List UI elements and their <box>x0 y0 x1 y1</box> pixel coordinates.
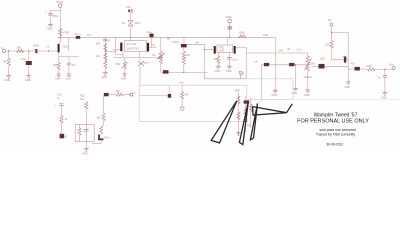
svg-text:fs: fs <box>134 92 137 95</box>
svg-text:led: led <box>247 124 251 127</box>
wire x295 to ground <box>294 65 296 87</box>
svg-text:GND: GND <box>345 86 351 89</box>
capacitor C8 to ground <box>228 53 230 58</box>
capacitor C15 <box>59 104 63 106</box>
svg-text:1M: 1M <box>196 41 199 44</box>
svg-text:GND: GND <box>272 94 278 97</box>
capacitor C14 to ground <box>384 69 386 75</box>
wire output right <box>236 48 247 54</box>
ground <box>273 89 278 93</box>
resistor R7 on rail <box>238 35 246 38</box>
box RC network <box>75 125 94 142</box>
capacitor C6 dark <box>183 37 185 44</box>
svg-text:tone: tone <box>144 62 149 65</box>
wire <box>104 37 106 62</box>
transistor bar left <box>214 46 216 54</box>
ground <box>103 71 108 75</box>
svg-text:GND: GND <box>304 94 310 97</box>
wire tone bottom <box>262 64 308 66</box>
capacitor C17 inside box <box>85 125 87 130</box>
svg-text:470R: 470R <box>63 31 69 35</box>
resistor R5 <box>183 47 185 51</box>
op-amp U2 box <box>217 45 233 52</box>
output jack J2 <box>392 67 395 70</box>
svg-text:J201: J201 <box>219 48 225 52</box>
svg-text:10k: 10k <box>116 90 121 93</box>
svg-text:tr: tr <box>243 73 245 76</box>
svg-text:9V: 9V <box>328 18 331 22</box>
wire rail drop right <box>274 37 276 89</box>
arrow 2 <box>239 103 248 145</box>
junction <box>8 50 9 51</box>
wire drain right <box>149 37 156 47</box>
wire drop x160.8 <box>160 37 162 51</box>
svg-text:GND: GND <box>292 92 298 95</box>
svg-text:47u +: 47u + <box>75 32 82 36</box>
svg-text:n3: n3 <box>152 44 155 47</box>
svg-text:LM13700: LM13700 <box>127 46 139 50</box>
svg-text:1N34: 1N34 <box>33 44 40 48</box>
svg-text:47p: 47p <box>21 57 26 61</box>
svg-text:100u: 100u <box>53 14 59 18</box>
wire top-right L <box>332 33 349 60</box>
resistor R12 inside box <box>78 125 80 128</box>
wire <box>51 7 61 37</box>
LED D4 dark <box>168 94 171 98</box>
capacitor C2 (dark) on rail <box>76 36 80 39</box>
svg-text:10k: 10k <box>186 54 191 57</box>
wire <box>331 26 333 40</box>
resistor R8 <box>330 41 333 49</box>
svg-text:1u: 1u <box>57 97 60 100</box>
wire gate <box>204 49 213 51</box>
svg-text:solo para uso personal: solo para uso personal <box>319 128 356 132</box>
capacitor C7 dark on bus <box>163 70 169 73</box>
wire tone top <box>247 52 308 54</box>
svg-text:3PDT: 3PDT <box>235 90 242 93</box>
potentiometer VR1 gain <box>124 58 126 62</box>
transistor bar right <box>147 43 149 52</box>
svg-text:GND: GND <box>55 78 61 81</box>
junction dots on rail <box>60 37 61 38</box>
svg-text:FOR PERSONAL USE ONLY: FOR PERSONAL USE ONLY <box>297 118 369 124</box>
wire drain to rail <box>227 37 229 45</box>
diode D2 <box>128 21 133 27</box>
svg-text:GND: GND <box>66 78 72 81</box>
capacitor C19 dark L <box>99 135 104 140</box>
enclosure box <box>139 85 247 121</box>
capacitor C10 dark <box>289 63 294 66</box>
svg-text:1M: 1M <box>3 60 7 64</box>
capacitor C12 dark <box>344 56 346 62</box>
svg-text:Out: Out <box>389 62 394 66</box>
svg-text:10u: 10u <box>72 64 77 67</box>
wire down <box>103 96 105 113</box>
svg-text:22k: 22k <box>80 98 85 101</box>
resistor R1 on wire <box>17 49 25 52</box>
svg-text:DC: DC <box>127 5 131 9</box>
svg-text:9Vtp: 9Vtp <box>57 0 64 4</box>
wire <box>50 15 52 23</box>
svg-text:GND: GND <box>5 78 11 82</box>
svg-text:47k: 47k <box>87 34 92 37</box>
ground <box>346 80 351 84</box>
svg-text:GND: GND <box>25 78 31 82</box>
input jack J1 <box>2 49 5 52</box>
svg-text:4001: 4001 <box>135 22 141 25</box>
capacitor C16 dark <box>60 134 65 139</box>
svg-text:30-06-2012: 30-06-2012 <box>326 143 343 147</box>
trimmer TR3 bubble <box>239 71 242 74</box>
svg-text:4k7: 4k7 <box>167 38 172 41</box>
svg-text:5k6: 5k6 <box>53 64 58 67</box>
svg-text:J201: J201 <box>63 45 69 49</box>
resistor R2 to ground <box>8 51 10 58</box>
svg-text:9Vad: 9Vad <box>226 15 232 19</box>
svg-text:100R: 100R <box>239 31 245 34</box>
transistor bar left <box>120 43 122 52</box>
op-amp U1 box <box>125 41 147 52</box>
arrow 1 <box>211 101 237 143</box>
ground <box>48 23 53 27</box>
power node circle V3 <box>330 23 333 26</box>
svg-text:68k: 68k <box>96 43 101 46</box>
svg-text:2k2: 2k2 <box>214 58 219 61</box>
wire down from tone <box>261 65 263 100</box>
resistor R4 <box>104 53 107 61</box>
svg-text:n6: n6 <box>255 60 258 63</box>
svg-text:100n: 100n <box>104 137 110 140</box>
junction <box>48 50 49 51</box>
junction <box>28 50 29 51</box>
svg-text:10u+: 10u+ <box>232 59 238 62</box>
diode D1 on wire <box>35 49 37 53</box>
wire L to stage 2 <box>187 44 246 79</box>
resistor R14 <box>102 113 105 121</box>
capacitor C1 100u <box>48 13 52 15</box>
svg-text:33k: 33k <box>97 117 102 120</box>
arrow 3 <box>250 104 257 140</box>
resistor R13 <box>116 93 124 96</box>
wire chain C <box>250 98 252 128</box>
svg-text:GND: GND <box>82 152 88 155</box>
capacitor C11 dark <box>319 64 325 69</box>
wire 9V rail <box>57 36 275 38</box>
capacitor C9 dark <box>264 63 269 66</box>
svg-text:4k7: 4k7 <box>185 94 190 97</box>
wire input <box>5 50 57 52</box>
capacitor C13 dark on out wire <box>355 67 360 71</box>
resistor R11 <box>85 102 88 110</box>
trimmer VR2 <box>139 58 141 61</box>
svg-text:100R: 100R <box>366 65 372 68</box>
wire loop around stage 1 <box>113 37 161 57</box>
wire <box>109 94 116 96</box>
power node circle V1 <box>59 4 62 7</box>
arrow 4 <box>253 104 293 115</box>
svg-text:GND: GND <box>215 70 221 73</box>
svg-text:1k: 1k <box>65 118 68 121</box>
svg-text:+: + <box>224 27 226 30</box>
svg-text:100k: 100k <box>263 34 269 37</box>
resistor R16 source to ground <box>58 57 60 63</box>
resistor R6 to ground <box>217 53 219 56</box>
connector bubble <box>181 107 184 110</box>
resistor R15 <box>100 126 103 134</box>
wire chain B <box>244 96 246 132</box>
svg-text:100k: 100k <box>310 63 316 66</box>
diode D3 <box>229 23 231 38</box>
DC jack symbol <box>128 10 130 13</box>
svg-text:GND: GND <box>226 70 232 73</box>
svg-text:4u7: 4u7 <box>351 63 356 66</box>
svg-text:6n8: 6n8 <box>279 50 284 53</box>
svg-text:GND: GND <box>47 27 53 31</box>
wire to LED <box>139 95 168 97</box>
wire ladder junction to stage 1 <box>105 50 115 52</box>
wire from wiper <box>312 65 319 67</box>
svg-text:1n: 1n <box>378 77 381 80</box>
wire <box>130 12 132 20</box>
svg-text:GND: GND <box>121 78 127 81</box>
capacitor C20 source bypass <box>68 57 70 64</box>
wire box top to rail <box>130 37 132 40</box>
enclosure step box <box>247 79 293 100</box>
svg-text:2M2: 2M2 <box>17 46 23 50</box>
svg-text:1N: 1N <box>122 22 125 25</box>
svg-text:n1: n1 <box>47 45 50 49</box>
wire gate left <box>113 50 120 51</box>
resistor R9 <box>368 68 376 71</box>
svg-text:+: + <box>55 105 57 108</box>
svg-text:GND: GND <box>381 96 387 99</box>
resistor R3 <box>104 44 107 52</box>
svg-text:n7: n7 <box>65 136 68 139</box>
svg-text:22u+: 22u+ <box>147 31 153 34</box>
transistor Q1 channel bar <box>58 44 60 52</box>
resistor R10 <box>60 116 63 124</box>
transistor bar right <box>234 46 236 54</box>
wire <box>130 27 132 38</box>
wire bottom bus <box>161 71 208 73</box>
potentiometer VR4 volume <box>307 53 309 56</box>
chain 3: capacitor C18 dark top <box>104 93 109 96</box>
resistor R17 <box>104 61 107 69</box>
svg-text:Traced by FSB comunity: Traced by FSB comunity <box>316 133 355 137</box>
wire legs of Q1 <box>59 37 79 56</box>
svg-text:+: + <box>45 11 47 14</box>
capacitor C5 dark on rail <box>149 34 153 38</box>
ground <box>6 74 11 78</box>
connector circle <box>130 93 133 96</box>
svg-text:GND: GND <box>102 76 108 79</box>
wire drop to input stage <box>68 37 70 51</box>
ground <box>26 74 31 78</box>
svg-text:10k: 10k <box>325 44 330 47</box>
svg-text:50k: 50k <box>116 63 121 66</box>
wire chain A <box>238 93 240 137</box>
svg-text:0.022u: 0.022u <box>172 41 180 44</box>
svg-text:5k: 5k <box>153 54 156 57</box>
svg-text:22k: 22k <box>96 55 101 58</box>
capacitor C3 (dark) to ground <box>28 51 30 61</box>
ground <box>84 147 89 151</box>
svg-text:n8: n8 <box>108 40 111 43</box>
svg-text:n5: n5 <box>287 48 290 51</box>
power node circle V2 <box>228 19 232 23</box>
svg-text:0.1u: 0.1u <box>297 49 302 52</box>
potentiometer VR3 <box>159 51 162 59</box>
resistor 470R zigzag <box>59 28 62 36</box>
svg-text:LED: LED <box>320 58 325 61</box>
